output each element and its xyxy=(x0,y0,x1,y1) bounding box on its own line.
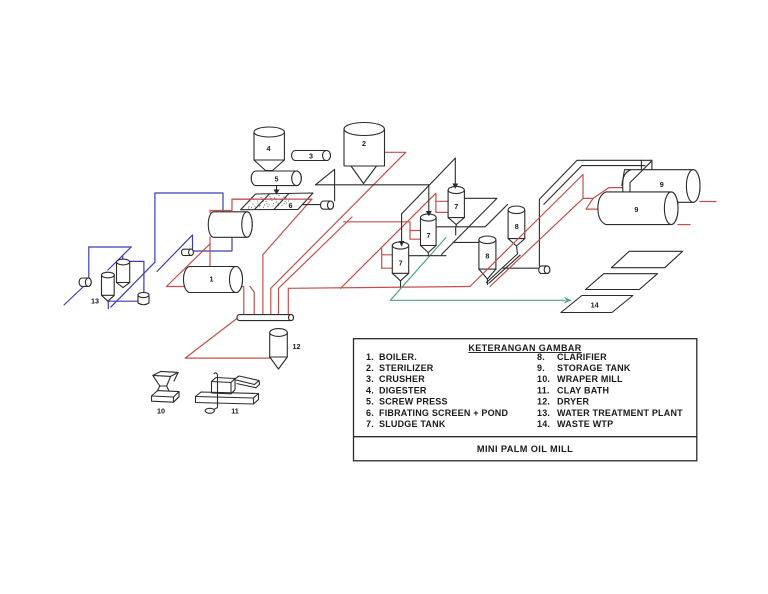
svg-text:8: 8 xyxy=(485,252,489,261)
svg-text:9.: 9. xyxy=(537,363,545,373)
crusher 3 xyxy=(292,151,331,161)
svg-text:CLAY BATH: CLAY BATH xyxy=(557,385,609,395)
PIPES_FRONT xyxy=(232,158,583,304)
wire red pond line diagonal from manifold xyxy=(210,199,312,315)
svg-text:6.: 6. xyxy=(366,408,374,418)
small vessel right of 13 xyxy=(138,292,149,304)
wire red branch to sludge tank 7b loop xyxy=(344,222,421,239)
wire black nozzle verticals on tank 9a xyxy=(640,160,642,171)
svg-text:10.: 10. xyxy=(537,374,550,384)
wire arrow into sludge tank 7c xyxy=(454,158,456,184)
wire red long diagonal to storage tanks xyxy=(470,175,583,287)
svg-text:4: 4 xyxy=(267,144,271,153)
depericarper cylinder xyxy=(208,212,252,238)
wire red loop on tank 7b xyxy=(410,230,421,232)
wire black stub under tank 7a cone xyxy=(400,281,402,287)
wire blue diagonal into tank 13a xyxy=(108,247,131,270)
wire blue 13b to small vessel xyxy=(130,261,144,293)
wraper mill 10 xyxy=(152,371,180,402)
wire blue top horizontal over 13 xyxy=(89,246,131,248)
wire arrow into sludge tank 7b xyxy=(428,185,430,212)
svg-text:MINI PALM OIL MILL: MINI PALM OIL MILL xyxy=(477,444,573,454)
wire black triangle support xyxy=(316,169,335,201)
water treatment tank 13b xyxy=(117,259,130,288)
pump B near boiler xyxy=(182,249,194,255)
wire black stub under 7c xyxy=(455,227,457,235)
svg-text:DIGESTER: DIGESTER xyxy=(379,385,427,395)
node pond stipple texture xyxy=(246,194,290,208)
svg-text:BOILER.: BOILER. xyxy=(379,352,417,362)
wire red manifold diagonal stub xyxy=(279,217,353,315)
fibrating screen + pond 6 xyxy=(241,193,313,210)
svg-text:11: 11 xyxy=(231,407,239,416)
svg-text:11.: 11. xyxy=(537,385,550,395)
svg-text:1: 1 xyxy=(210,275,214,284)
wire black tank 7c outlet xyxy=(442,198,498,254)
pond pump C xyxy=(321,201,334,209)
svg-text:SLUDGE TANK: SLUDGE TANK xyxy=(379,419,446,429)
pump A near 13 xyxy=(79,278,91,286)
waste wtp pad P2 (middle) xyxy=(586,274,658,290)
wire red main bottom run to clarifiers xyxy=(288,287,470,316)
wire teal arrow into waste wtp 14 xyxy=(564,297,572,304)
svg-text:CLARIFIER: CLARIFIER xyxy=(557,352,607,362)
screw press 5 xyxy=(251,171,301,186)
svg-text:6: 6 xyxy=(289,201,293,210)
svg-text:9: 9 xyxy=(660,180,664,189)
pump D clarifier outlet xyxy=(539,266,550,274)
wire red stub right of tank 9b xyxy=(678,224,690,226)
wire arrow into sludge tank 7a xyxy=(401,214,403,242)
dryer 12 xyxy=(270,329,288,369)
svg-text:WATER TREATMENT PLANT: WATER TREATMENT PLANT xyxy=(557,408,683,418)
red manifold header xyxy=(237,315,294,321)
svg-text:13.: 13. xyxy=(537,408,550,418)
wire black riser from pump D xyxy=(539,160,652,266)
wire red header to dryer 12 xyxy=(185,318,270,359)
storage tank 9b (front) xyxy=(598,192,678,225)
wire blue vertical into pump A xyxy=(88,247,90,278)
wire blue pump B riser and diagonal xyxy=(157,235,193,272)
wire black main overhead line xyxy=(316,184,429,186)
wire red loop on tank 7a xyxy=(381,247,383,268)
svg-text:3.: 3. xyxy=(366,374,374,384)
wire black clarifier drains to pump D xyxy=(486,246,517,283)
svg-text:7: 7 xyxy=(427,231,431,240)
svg-text:STERILIZER: STERILIZER xyxy=(379,363,434,373)
wire teal waste line to 14 xyxy=(390,238,565,301)
wire blue feed line pump A to header (left) xyxy=(64,286,84,305)
pipe into 9b behind 9a xyxy=(630,161,652,193)
svg-text:CRUSHER: CRUSHER xyxy=(379,374,425,384)
boiler 1 xyxy=(184,267,243,293)
wire red pond crossing line xyxy=(232,198,312,200)
LEGEND xyxy=(354,339,697,461)
svg-text:3: 3 xyxy=(309,152,313,161)
svg-text:13: 13 xyxy=(91,297,99,306)
wire black tank 7b outlet xyxy=(436,205,507,227)
wire red sterilizer 2 stub and long diagonal to manifold xyxy=(271,152,406,315)
wire blue stub into tank 13b xyxy=(122,256,124,262)
svg-text:14: 14 xyxy=(591,301,599,310)
wire blue from cylinder bottom to pump B xyxy=(194,237,232,251)
svg-text:8.: 8. xyxy=(537,352,545,362)
wire red loop on tank 7c xyxy=(436,200,448,202)
svg-text:FIBRATING SCREEN + POND: FIBRATING SCREEN + POND xyxy=(379,408,508,418)
svg-text:2.: 2. xyxy=(366,363,374,373)
svg-text:STORAGE TANK: STORAGE TANK xyxy=(557,363,631,373)
wire blue under tanks 13 xyxy=(107,295,109,309)
waste wtp pad 14 (bottom) xyxy=(561,296,633,313)
sludge tank 7b xyxy=(421,214,437,253)
wire blue long diagonal 13 to riser xyxy=(111,262,155,307)
svg-text:1.: 1. xyxy=(366,352,374,362)
wire red boiler feed drop below cylinder xyxy=(209,237,211,266)
wire red feed diagonal tanks 7a 7c xyxy=(341,193,436,288)
wire arrow screw press into pond xyxy=(276,186,278,191)
wire black tank 7a outlet xyxy=(409,255,446,257)
wire red companion diagonal through clarifier 8a xyxy=(490,198,583,286)
legend outer box xyxy=(354,339,697,461)
waste wtp pad P1 (top) xyxy=(611,251,682,267)
svg-text:5.: 5. xyxy=(366,397,374,407)
svg-text:5: 5 xyxy=(275,175,279,184)
svg-text:12.: 12. xyxy=(537,397,550,407)
wire red triangle near boiler xyxy=(166,244,243,315)
wire red second manifold drop xyxy=(250,287,254,316)
wire black stub into clarifier 8b top xyxy=(453,241,479,243)
wire black stub under tank 7c cone xyxy=(455,225,457,227)
svg-text:DRYER: DRYER xyxy=(557,397,589,407)
EQUIPMENT xyxy=(79,123,700,414)
wire red storage tank zigzag xyxy=(583,175,622,199)
digester 4 xyxy=(254,127,284,171)
svg-text:7.: 7. xyxy=(366,419,374,429)
svg-text:7: 7 xyxy=(454,202,458,211)
water treatment tank 13a xyxy=(102,272,115,301)
clarifier 8b xyxy=(479,236,496,279)
svg-text:12: 12 xyxy=(293,342,301,351)
wire red stub right of tank 9a xyxy=(700,201,716,203)
svg-text:10: 10 xyxy=(157,407,165,416)
svg-text:WASTE WTP: WASTE WTP xyxy=(557,419,613,429)
storage tank 9a (behind) xyxy=(622,170,700,203)
svg-text:7: 7 xyxy=(399,259,403,268)
sludge tank 7a xyxy=(392,242,408,281)
legend divider xyxy=(354,436,697,438)
sterilizer 2 xyxy=(344,123,385,184)
wire blue riser and top run to cylinder xyxy=(155,193,223,262)
svg-text:8: 8 xyxy=(515,222,519,231)
svg-text:14.: 14. xyxy=(537,419,550,429)
clarifier 8a xyxy=(508,206,525,246)
clay bath 11 xyxy=(196,373,260,413)
svg-text:9: 9 xyxy=(634,205,638,214)
wire black stub under tank 7b cone xyxy=(427,253,429,256)
wire black pond outlet to pump C xyxy=(296,205,323,210)
svg-text:WRAPER MILL: WRAPER MILL xyxy=(557,374,623,384)
sludge tank 7c xyxy=(448,186,464,224)
svg-text:4.: 4. xyxy=(366,385,374,395)
PIPES_BEHIND xyxy=(64,152,716,358)
svg-text:2: 2 xyxy=(362,139,366,148)
wire black wall diagonal over tanks 7 xyxy=(402,158,456,214)
wire black second pipe line to storage xyxy=(544,166,645,205)
svg-text:SCREW PRESS: SCREW PRESS xyxy=(379,397,448,407)
